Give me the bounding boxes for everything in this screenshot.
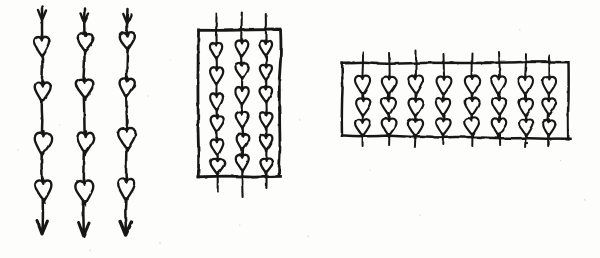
left string 1 heart 2 — [34, 81, 51, 104]
left string 1 heart 4 — [35, 178, 52, 203]
left string 3 top arrow — [123, 14, 131, 23]
left string 1 — [42, 6, 43, 234]
right string 1 heart 2 — [356, 97, 371, 118]
right string 5 — [472, 53, 473, 146]
left string 3 heart 4 — [118, 177, 135, 203]
right string 6 heart 1 — [491, 75, 506, 96]
right string 4 heart 2 — [436, 97, 450, 117]
right string 4 — [442, 54, 445, 144]
middle string 2 heart 5 — [235, 132, 249, 151]
right string 1 heart 1 — [355, 74, 371, 97]
left string 1 bottom arrow — [37, 221, 47, 235]
left string 3 — [125, 9, 127, 235]
middle string 2 — [241, 13, 243, 198]
middle string 2 heart 2 — [235, 62, 248, 80]
right string 6 — [499, 52, 500, 145]
right string 3 heart 3 — [408, 118, 424, 138]
middle string 3 heart 4 — [260, 112, 273, 130]
left string 2 heart 2 — [76, 78, 94, 100]
left string 1 top arrow — [38, 10, 46, 20]
middle string 3 heart 6 — [260, 157, 273, 174]
right string 3 heart 1 — [408, 74, 424, 96]
speckle dot — [526, 142, 528, 144]
right string 1 heart 3 — [355, 118, 370, 138]
right string 7 heart 1 — [518, 75, 533, 97]
right string 7 — [525, 54, 526, 147]
right string 5 heart 1 — [465, 74, 481, 96]
left string 3 heart 2 — [119, 77, 135, 99]
right string 8 heart 1 — [542, 75, 556, 96]
right string 3 heart 2 — [408, 97, 423, 118]
left string 3 heart 3 — [118, 126, 136, 151]
left string 2 heart 1 — [77, 32, 93, 53]
right panel frame — [342, 62, 571, 139]
right string 2 heart 1 — [381, 75, 396, 96]
middle string 3 heart 5 — [260, 134, 273, 152]
left string 2 bottom arrow — [79, 223, 89, 237]
middle string 3 heart 2 — [259, 64, 272, 82]
middle string 2 heart 4 — [236, 111, 249, 129]
right string 8 — [548, 55, 549, 146]
left string 2 top arrow — [81, 14, 89, 23]
right string 5 heart 3 — [464, 116, 480, 137]
left string 2 heart 4 — [75, 178, 95, 205]
right string 1 — [361, 52, 364, 146]
middle string 1 heart 3 — [210, 92, 223, 112]
middle string 2 heart 6 — [236, 153, 250, 172]
left string 1 heart 1 — [34, 35, 50, 58]
middle string 2 heart 3 — [235, 86, 249, 107]
right string 2 heart 2 — [381, 96, 396, 116]
left string 3 bottom arrow — [120, 222, 131, 236]
right string 7 heart 2 — [518, 97, 533, 118]
right string 4 heart 1 — [436, 75, 452, 97]
right string 4 heart 3 — [436, 117, 451, 137]
middle string 1 heart 5 — [210, 138, 224, 157]
right string 6 heart 3 — [491, 117, 506, 137]
middle string 1 heart 1 — [210, 41, 223, 60]
middle string 1 heart 4 — [210, 114, 224, 133]
right string 2 heart 3 — [381, 117, 396, 137]
right string 3 — [415, 51, 416, 147]
middle string 1 heart 2 — [210, 66, 224, 86]
middle string 1 — [216, 14, 218, 191]
right string 2 — [388, 53, 391, 145]
left string 3 heart 1 — [119, 31, 136, 52]
right string 6 heart 2 — [492, 96, 506, 116]
middle string 3 heart 1 — [259, 39, 272, 57]
left string 1 heart 3 — [33, 131, 52, 158]
right string 8 heart 3 — [542, 119, 555, 137]
right string 7 heart 3 — [519, 118, 534, 138]
left string 2 heart 3 — [77, 131, 94, 156]
left string 2 — [83, 8, 84, 236]
middle string 2 heart 1 — [235, 39, 248, 58]
right string 5 heart 2 — [465, 97, 479, 118]
middle panel frame — [198, 30, 281, 178]
middle string 3 heart 3 — [259, 85, 272, 104]
right string 8 heart 2 — [542, 97, 556, 117]
middle string 3 — [265, 14, 268, 188]
middle string 1 heart 6 — [210, 158, 224, 176]
